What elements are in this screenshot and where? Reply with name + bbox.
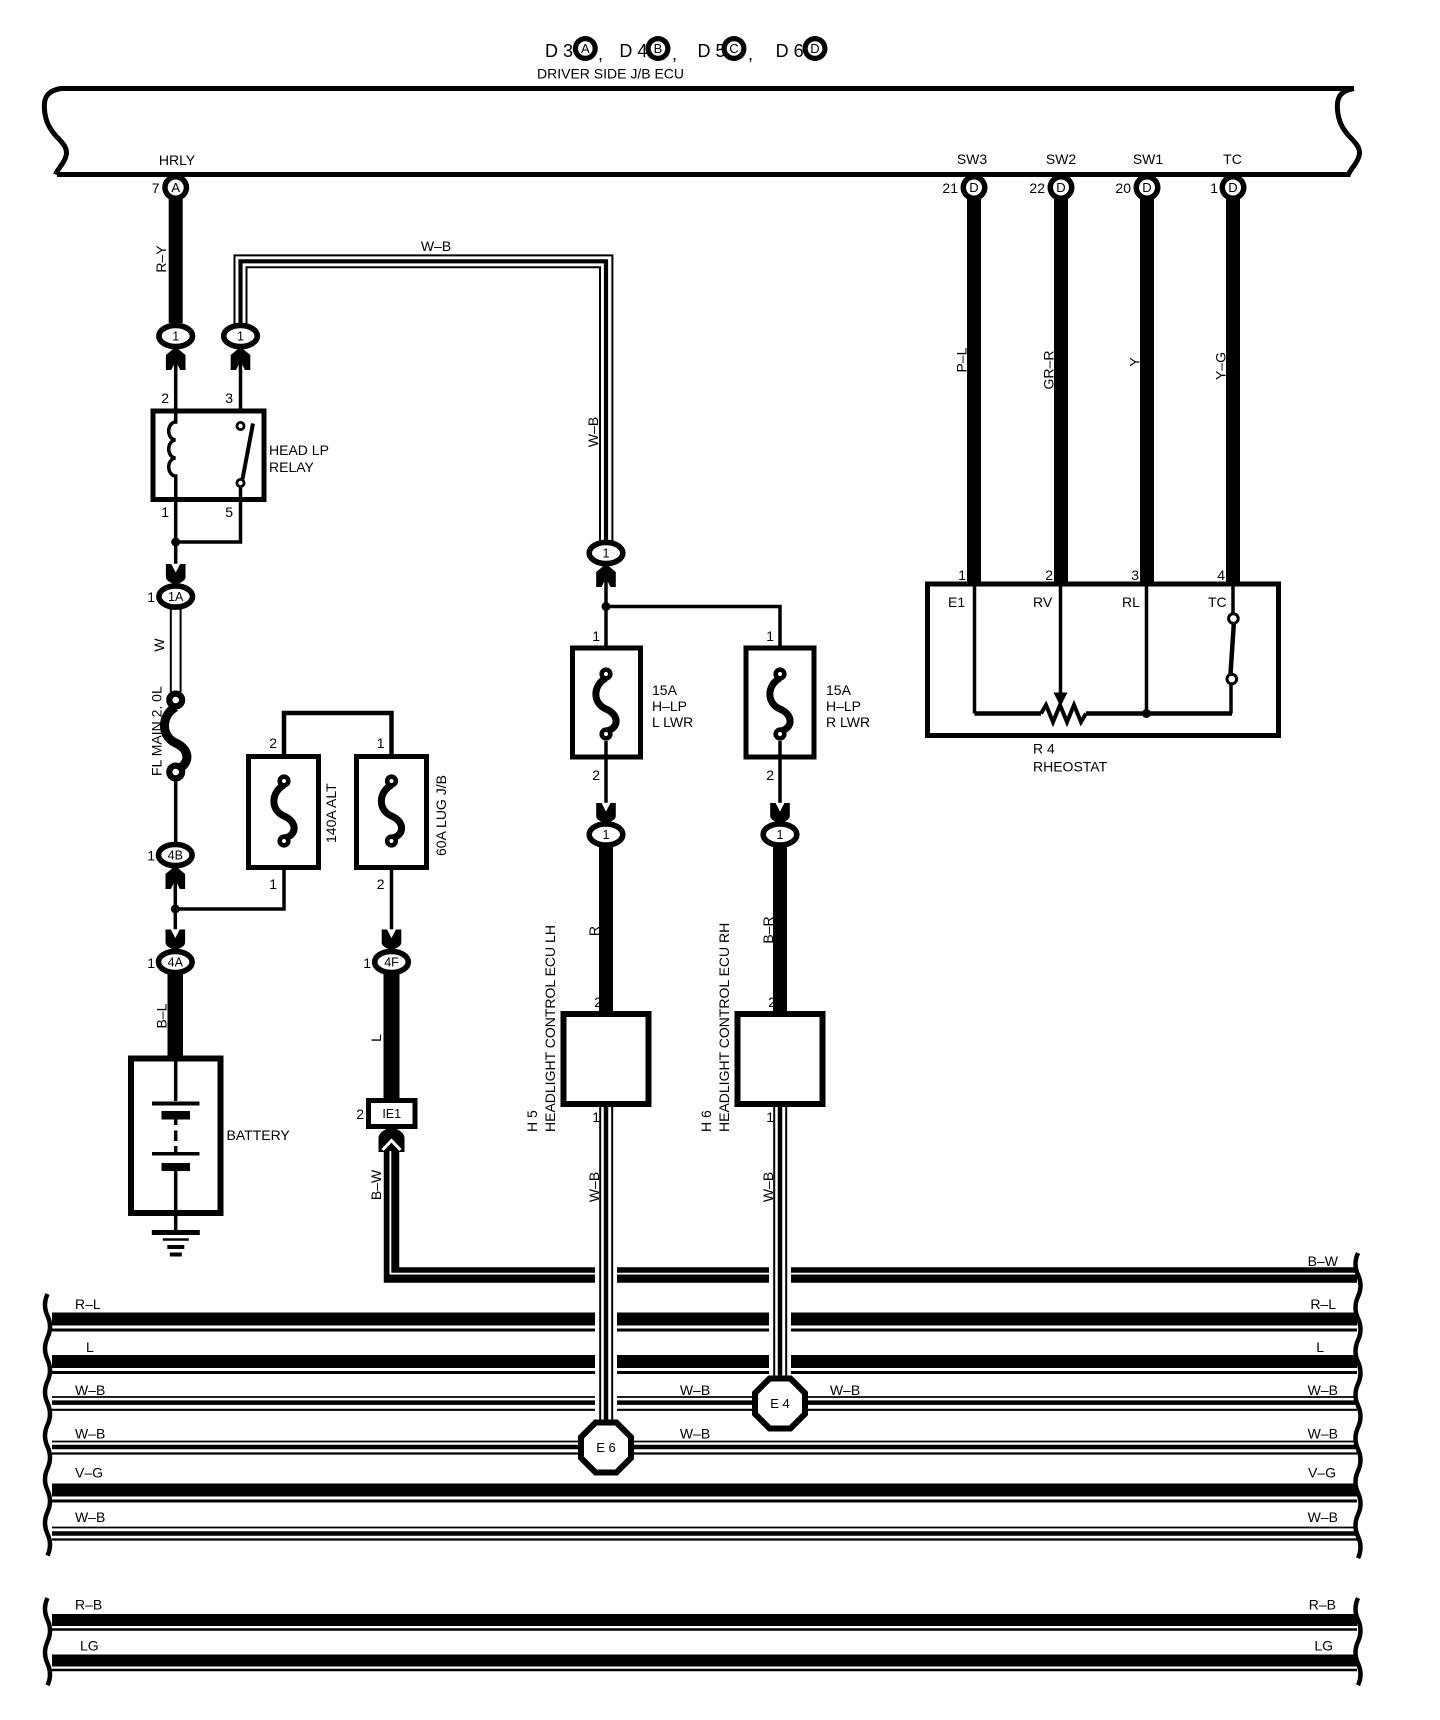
svg-text:2: 2: [161, 390, 169, 406]
svg-text:A: A: [171, 180, 180, 195]
svg-text:SW1: SW1: [1133, 151, 1164, 167]
svg-text:H–LP: H–LP: [826, 698, 861, 714]
svg-text:W–B: W–B: [1308, 1509, 1338, 1525]
svg-text:RHEOSTAT: RHEOSTAT: [1033, 759, 1108, 775]
svg-text:2: 2: [594, 994, 602, 1010]
svg-text:B: B: [654, 41, 663, 56]
svg-text:1: 1: [147, 589, 155, 605]
svg-text:2: 2: [766, 767, 774, 783]
svg-text:1: 1: [592, 1109, 600, 1125]
svg-text:GR–R: GR–R: [1041, 351, 1057, 390]
svg-text:1: 1: [147, 848, 155, 864]
svg-text:V–G: V–G: [1308, 1465, 1336, 1481]
svg-text:1: 1: [363, 955, 371, 971]
svg-text:2: 2: [269, 735, 277, 751]
svg-text:H 5: H 5: [524, 1110, 540, 1132]
svg-text:L LWR: L LWR: [652, 714, 693, 730]
svg-text:D: D: [969, 180, 978, 195]
svg-text:DRIVER SIDE J/B ECU: DRIVER SIDE J/B ECU: [537, 66, 684, 82]
svg-text:R 4: R 4: [1033, 741, 1055, 757]
svg-text:H 6: H 6: [698, 1110, 714, 1132]
svg-text:1: 1: [147, 955, 155, 971]
svg-text:1: 1: [777, 828, 784, 842]
svg-text:TC: TC: [1223, 151, 1242, 167]
svg-text:R LWR: R LWR: [826, 714, 870, 730]
svg-text:20: 20: [1115, 180, 1131, 196]
svg-text:3: 3: [1131, 567, 1139, 583]
svg-text:1: 1: [1210, 180, 1218, 196]
svg-text:E 6: E 6: [596, 1440, 616, 1455]
svg-text:B–W: B–W: [1308, 1253, 1339, 1269]
svg-text:A: A: [581, 41, 590, 56]
svg-text:SW3: SW3: [957, 151, 988, 167]
svg-text:D 3: D 3: [545, 41, 573, 61]
svg-text:1: 1: [766, 628, 774, 644]
svg-text:RELAY: RELAY: [269, 459, 315, 475]
svg-text:W–B: W–B: [75, 1426, 105, 1442]
svg-text:H–LP: H–LP: [652, 698, 687, 714]
svg-text:60A LUG J/B: 60A LUG J/B: [433, 775, 449, 856]
svg-text:1: 1: [958, 567, 966, 583]
svg-text:R: R: [586, 926, 602, 936]
svg-text:15A: 15A: [652, 682, 678, 698]
svg-text:HEADLIGHT CONTROL ECU RH: HEADLIGHT CONTROL ECU RH: [716, 923, 732, 1132]
svg-text:7: 7: [152, 180, 160, 196]
svg-text:D 6: D 6: [776, 41, 804, 61]
svg-text:15A: 15A: [826, 682, 852, 698]
svg-text:1A: 1A: [168, 590, 184, 604]
svg-text:W–B: W–B: [1308, 1426, 1338, 1442]
svg-text:L: L: [368, 1034, 384, 1042]
svg-text:2: 2: [1045, 567, 1053, 583]
svg-text:,: ,: [748, 44, 753, 64]
svg-text:V–G: V–G: [75, 1465, 103, 1481]
svg-text:2: 2: [592, 767, 600, 783]
svg-text:R–L: R–L: [1310, 1296, 1336, 1312]
svg-text:B–R: B–R: [760, 916, 776, 943]
svg-text:B–W: B–W: [368, 1169, 384, 1200]
svg-text:4B: 4B: [168, 849, 183, 863]
svg-text:,: ,: [598, 44, 603, 64]
svg-text:E1: E1: [948, 594, 965, 610]
svg-text:22: 22: [1029, 180, 1045, 196]
svg-text:C: C: [729, 41, 738, 56]
svg-text:E 4: E 4: [770, 1396, 790, 1411]
svg-text:3: 3: [225, 390, 233, 406]
svg-text:2: 2: [356, 1106, 364, 1122]
svg-text:W–B: W–B: [75, 1509, 105, 1525]
svg-text:1: 1: [377, 735, 385, 751]
svg-text:RV: RV: [1033, 594, 1053, 610]
svg-text:W–B: W–B: [421, 238, 451, 254]
svg-text:4: 4: [1217, 567, 1225, 583]
svg-text:W: W: [151, 638, 167, 652]
svg-text:4F: 4F: [384, 956, 399, 970]
svg-text:B–L: B–L: [154, 1003, 170, 1028]
svg-text:140A ALT: 140A ALT: [323, 783, 339, 843]
svg-text:1: 1: [766, 1109, 774, 1125]
svg-text:R–B: R–B: [75, 1597, 102, 1613]
svg-text:1: 1: [603, 828, 610, 842]
svg-text:BATTERY: BATTERY: [227, 1127, 291, 1143]
svg-text:5: 5: [225, 504, 233, 520]
svg-text:W–B: W–B: [830, 1382, 860, 1398]
svg-text:2: 2: [768, 994, 776, 1010]
svg-text:L: L: [86, 1339, 94, 1355]
svg-text:1: 1: [161, 504, 169, 520]
svg-text:SW2: SW2: [1046, 151, 1077, 167]
svg-text:P–L: P–L: [954, 347, 970, 372]
svg-text:Y: Y: [1127, 357, 1143, 367]
svg-text:RL: RL: [1122, 594, 1140, 610]
svg-text:1: 1: [603, 547, 610, 561]
svg-text:2: 2: [377, 876, 385, 892]
svg-text:1: 1: [592, 628, 600, 644]
svg-text:D: D: [1142, 180, 1151, 195]
svg-text:IE1: IE1: [382, 1107, 401, 1121]
svg-text:R–Y: R–Y: [153, 245, 169, 273]
svg-text:W–B: W–B: [680, 1382, 710, 1398]
svg-text:R–B: R–B: [1309, 1597, 1336, 1613]
svg-text:TC: TC: [1208, 594, 1227, 610]
svg-text:R–L: R–L: [75, 1296, 101, 1312]
svg-text:1: 1: [269, 876, 277, 892]
svg-text:D 5: D 5: [698, 41, 726, 61]
svg-text:1: 1: [172, 330, 179, 344]
svg-text:L: L: [1316, 1339, 1324, 1355]
svg-text:W–B: W–B: [585, 417, 601, 447]
svg-text:W–B: W–B: [680, 1426, 710, 1442]
svg-text:D: D: [810, 41, 819, 56]
svg-text:HRLY: HRLY: [159, 152, 196, 168]
svg-text:LG: LG: [80, 1638, 99, 1654]
svg-text:1: 1: [237, 330, 244, 344]
svg-text:21: 21: [942, 180, 958, 196]
svg-text:,: ,: [672, 44, 677, 64]
svg-text:LG: LG: [1314, 1638, 1333, 1654]
svg-text:W–B: W–B: [75, 1382, 105, 1398]
svg-text:HEAD LP: HEAD LP: [269, 442, 329, 458]
svg-text:D: D: [1056, 180, 1065, 195]
svg-text:Y–G: Y–G: [1213, 352, 1229, 380]
svg-text:D 4: D 4: [619, 41, 647, 61]
svg-text:4A: 4A: [168, 956, 184, 970]
svg-text:D: D: [1228, 180, 1237, 195]
svg-text:W–B: W–B: [1308, 1382, 1338, 1398]
svg-text:HEADLIGHT CONTROL ECU LH: HEADLIGHT CONTROL ECU LH: [542, 925, 558, 1132]
